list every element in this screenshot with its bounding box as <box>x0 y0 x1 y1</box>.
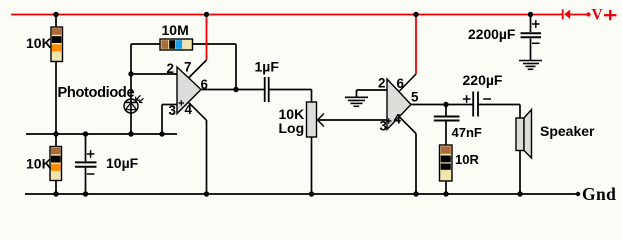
svg-text:10M: 10M <box>162 22 189 38</box>
value label 10K Log (VR1) <box>279 106 305 136</box>
wire: op-amp U1 pin 3 net <box>162 105 177 135</box>
svg-text:V: V <box>592 7 604 24</box>
ground symbol (C4) <box>519 61 542 70</box>
wire: speaker bottom to ground rail <box>519 151 521 195</box>
wire: pot wiper to U2 pin 3 <box>318 119 388 121</box>
svg-text:3: 3 <box>380 119 387 134</box>
wire: left column x=56 segments <box>55 15 57 195</box>
pin 6 label (U2) <box>397 76 404 91</box>
junction dots: ground rail <box>53 191 522 196</box>
value label 10K (R2) <box>26 156 52 172</box>
svg-text:220µF: 220µF <box>463 72 503 88</box>
pin 6 label (U1) <box>201 77 208 92</box>
value label 10uF (C2) <box>106 155 139 171</box>
svg-text:2: 2 <box>167 61 174 76</box>
svg-text:Photodiode: Photodiode <box>58 85 135 101</box>
wire: red rail from diode to V+ terminal <box>570 14 588 16</box>
wire: U2 pin 6 to V+ (diagonal black then red riser) <box>399 15 416 92</box>
wire: U2 pin 2 net (with inverting stub) <box>357 89 396 91</box>
potentiometer VR1 10K Log <box>307 102 325 137</box>
capacitor C3 220uF (output electrolytic, horizontal) <box>463 92 491 117</box>
svg-text:1µF: 1µF <box>255 59 280 75</box>
wire: U1 output (pin 6) run <box>201 89 264 91</box>
junction dots: input bus y=134 <box>53 131 164 136</box>
resistor R2 10K (bottom left) <box>50 147 62 181</box>
svg-text:2: 2 <box>378 76 385 91</box>
svg-text:7: 7 <box>184 60 191 75</box>
pin 4 label (U2) <box>394 112 402 127</box>
svg-text:47nF: 47nF <box>452 125 482 140</box>
label Speaker <box>540 123 595 139</box>
label Photodiode <box>58 85 135 101</box>
photodiode D2 column wire <box>130 44 132 134</box>
svg-text:5: 5 <box>411 90 419 105</box>
wire: U1 pin 7 to V+ (diagonal black then red riser) <box>189 15 207 79</box>
svg-text:4: 4 <box>394 112 402 127</box>
node Gnd (terminal dot and label) <box>576 184 616 204</box>
junction dot: U2 output tap <box>443 102 448 107</box>
pin 7 label (U1) <box>184 60 191 75</box>
resistor R3 10M (feedback, horizontal) <box>160 39 193 50</box>
svg-text:3: 3 <box>169 103 176 118</box>
node V+ (red terminal dot and label) <box>586 7 616 24</box>
wire: ground bottom rail <box>25 193 578 195</box>
svg-text:6: 6 <box>397 76 404 91</box>
pin 5 label (U2) <box>411 90 419 105</box>
wire: C3 to speaker <box>479 105 520 119</box>
junction dots: top rail <box>53 12 533 17</box>
value label 10R (R4) <box>455 152 479 167</box>
wire: feedback top run y=44 <box>131 44 236 90</box>
photodiode D2 <box>124 95 144 113</box>
svg-text:10K: 10K <box>26 156 52 172</box>
wire: C1 to pot top <box>270 90 312 103</box>
wire: feedback loop left riser at x=131 is included above; node dot at pin2 tap <box>128 71 133 76</box>
capacitor C4 2200uF (supply electrolytic) <box>521 15 542 61</box>
wire: pot bottom to ground rail <box>311 137 313 194</box>
svg-text:10K: 10K <box>26 35 52 51</box>
svg-text:10µF: 10µF <box>106 155 139 171</box>
pin 2 label (U2) <box>378 76 385 91</box>
wire: V+ top rail (red) <box>11 14 563 16</box>
capacitor C1 1uF (coupling) <box>265 77 269 102</box>
resistor R1 10K (top left) <box>51 27 63 62</box>
speaker LS1 <box>516 110 532 159</box>
capacitor C2 10uF (electrolytic, vertical) <box>75 134 97 194</box>
svg-text:2200µF: 2200µF <box>468 26 515 42</box>
pin 2 label (U1) <box>167 61 174 76</box>
wire: U2 output (pin 5) run <box>411 104 473 106</box>
value label 2200uF (C4) <box>468 26 515 42</box>
svg-text:Log: Log <box>279 120 305 136</box>
value label 47nF (C5) <box>452 125 482 140</box>
wire: R4 to ground rail <box>445 181 447 194</box>
value label 220uF (C3) <box>463 72 503 88</box>
value label 1uF (C1) <box>255 59 280 75</box>
diode D1 (red, series with V+) <box>562 9 570 19</box>
value label 10M (R3) <box>162 22 189 38</box>
op-amp U1 <box>177 67 201 114</box>
ground symbol (U2 pin 2) <box>345 90 368 106</box>
capacitor C5 47nF (vertical) <box>434 105 460 146</box>
wire: left input bus (horizontal, y=134) <box>26 133 177 135</box>
op-amp U2 <box>386 79 411 130</box>
svg-text:10R: 10R <box>455 152 479 167</box>
node: feedback tap on output <box>233 87 238 92</box>
pin 3 label (U2) <box>380 119 387 134</box>
wire: op-amp U1 pin 2 net (with inverting-input stub) <box>131 73 185 75</box>
resistor R4 10R (Zobel) <box>440 145 453 181</box>
wire: U1 pin 4 to ground rail <box>189 103 207 194</box>
svg-text:Speaker: Speaker <box>540 123 595 139</box>
pin 4 label (U1) <box>185 102 193 117</box>
pin 3 label (U1) <box>169 103 176 118</box>
value label 10K (R1) <box>26 35 52 51</box>
svg-text:Gnd: Gnd <box>582 184 616 204</box>
wire: U2 pin 4 to ground rail <box>399 117 416 194</box>
